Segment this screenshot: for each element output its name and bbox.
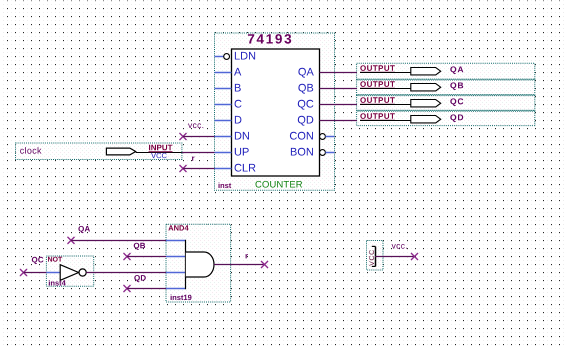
counter pin label B bbox=[235, 84, 241, 92]
counter pin label QC bbox=[298, 100, 314, 110]
wire r to CLR pin bbox=[183, 168, 215, 170]
input pin symbol clock bbox=[20, 145, 182, 159]
counter pin label CON bbox=[290, 132, 313, 140]
selection box output pin QB bbox=[357, 79, 535, 95]
wire QD to AND input 4 bbox=[127, 288, 166, 290]
pin stub A bbox=[215, 72, 232, 74]
wire QD counter to output bbox=[320, 120, 358, 122]
wire QC counter to output bbox=[320, 104, 358, 106]
unconnected marker X at QB bbox=[124, 253, 131, 260]
selection box AND4 gate inst19 bbox=[166, 224, 231, 302]
selection box output pin QC bbox=[357, 95, 535, 111]
counter pin label DN bbox=[235, 132, 249, 140]
wire VCC to vcc net bbox=[375, 256, 415, 258]
net label r at AND output bbox=[246, 254, 249, 258]
counter pin label QA bbox=[298, 68, 313, 78]
unconnected marker X at CLR bbox=[180, 165, 187, 172]
net label QA at AND input 1 bbox=[78, 226, 90, 233]
selection box inner boundary lines (double dotted) bbox=[357, 79, 535, 81]
output pin symbol QA bbox=[360, 65, 463, 75]
counter pin label LDN bbox=[235, 52, 255, 60]
pin stub LDN with bubble bbox=[215, 54, 230, 60]
output pin symbol QC bbox=[360, 97, 463, 107]
unconnected marker X at vcc bbox=[411, 253, 418, 260]
pin stub DN bbox=[215, 136, 232, 138]
counter U1 74193 body bbox=[219, 34, 320, 188]
wire AND output to r bbox=[214, 264, 265, 266]
selection box output pin QA bbox=[357, 63, 535, 79]
wire QB counter to output bbox=[320, 88, 358, 90]
pin stub C bbox=[215, 104, 232, 106]
output pin symbol QD bbox=[360, 113, 463, 123]
pin stub BON with bubble bbox=[320, 150, 335, 156]
net label vcc at VCC symbol bbox=[392, 244, 407, 249]
counter pin label A bbox=[234, 68, 241, 76]
wire QA to AND input 1 bbox=[71, 240, 166, 242]
pin stub D bbox=[215, 120, 232, 122]
selection box NOT gate inst4 bbox=[46, 256, 93, 286]
VCC power symbol bbox=[369, 246, 375, 266]
counter pin label QB bbox=[298, 84, 313, 94]
net label QB at AND input 2 bbox=[134, 243, 145, 250]
wire NOT output to AND input 3 bbox=[86, 272, 166, 274]
counter pin label CLR bbox=[235, 164, 256, 172]
selection box input pin clock bbox=[16, 143, 182, 160]
net label QD at AND input 4 bbox=[134, 275, 146, 282]
net label QC at NOT input bbox=[32, 257, 44, 264]
wire QB to AND input 2 bbox=[127, 256, 166, 258]
unconnected marker X at QA bbox=[68, 237, 75, 244]
selection box counter U1 bbox=[215, 33, 335, 190]
wire QA counter to output bbox=[320, 72, 358, 74]
counter pin label QD bbox=[298, 116, 314, 126]
wire vcc to DN pin bbox=[183, 136, 215, 138]
AND4 gate inst19 bbox=[166, 225, 214, 300]
unconnected marker X at AND output r bbox=[261, 261, 268, 268]
output pin symbol QB bbox=[360, 81, 463, 91]
unconnected marker X at QD bbox=[124, 285, 131, 292]
NOT gate inst4 bbox=[46, 257, 86, 286]
selection box output pin QD bbox=[357, 110, 535, 125]
net label r at CLR bbox=[192, 157, 195, 161]
pin stub B bbox=[215, 88, 232, 90]
counter pin label D bbox=[235, 116, 242, 124]
unconnected marker X at QC bbox=[20, 269, 27, 276]
pin stub CLR bbox=[215, 168, 232, 170]
counter pin label C bbox=[235, 100, 242, 108]
counter pin label BON bbox=[291, 148, 313, 156]
pin stub UP bbox=[215, 152, 232, 154]
wire QC to NOT input bbox=[24, 272, 47, 274]
unconnected marker X at DN bbox=[180, 133, 187, 140]
selection box VCC symbol bbox=[367, 241, 384, 271]
pin stub CON with bubble bbox=[320, 134, 335, 140]
counter pin label UP bbox=[235, 148, 249, 156]
net label vcc at DN bbox=[188, 123, 203, 128]
wire clock to UP pin bbox=[182, 152, 215, 154]
